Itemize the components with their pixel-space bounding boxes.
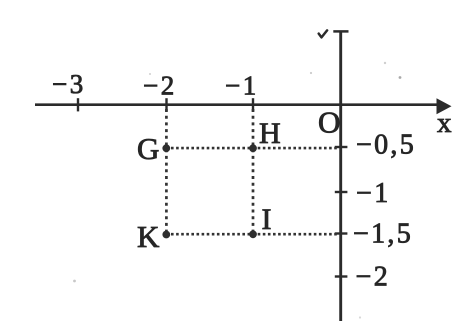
svg-text:I: I xyxy=(262,203,272,236)
svg-text:−2: −2 xyxy=(143,71,177,101)
svg-text:−1: −1 xyxy=(356,178,391,209)
svg-text:O: O xyxy=(318,105,340,140)
svg-text:K: K xyxy=(137,219,160,254)
svg-text:G: G xyxy=(137,131,159,166)
svg-text:−1: −1 xyxy=(225,71,259,101)
svg-text:−2: −2 xyxy=(356,262,391,293)
svg-text:−1,5: −1,5 xyxy=(353,219,413,250)
svg-text:−3: −3 xyxy=(52,69,86,99)
svg-text:H: H xyxy=(259,117,281,150)
svg-text:x: x xyxy=(437,107,452,139)
svg-text:−0,5: −0,5 xyxy=(356,129,416,160)
